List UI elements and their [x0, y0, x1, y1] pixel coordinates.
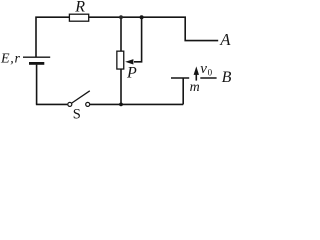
svg-text:R: R [74, 0, 85, 16]
potentiometer P body [117, 51, 124, 69]
svg-text:A: A [219, 30, 231, 49]
switch S blade [71, 91, 90, 104]
svg-text:P: P [126, 65, 137, 82]
wire: lower-right vertical up to B lead [182, 78, 184, 104]
wire: bottom wire from switch to lower-right vertical [90, 103, 183, 105]
wire: wiper branch vertical + horizontal [134, 17, 142, 62]
velocity arrow v0 (up) [195, 74, 197, 81]
wire: lead under v0 toward B [200, 77, 216, 79]
battery E,r short plate [29, 62, 44, 65]
wire: lead stub left of junction [171, 77, 189, 79]
wire: left vertical + top wire + right vertical + lead to A [36, 17, 218, 56]
node: junction dot bottom of pot branch [119, 103, 123, 107]
wire: potentiometer vertical branch [120, 17, 122, 104]
node: junction dot top of pot branch [119, 15, 123, 19]
svg-text:B: B [222, 69, 232, 86]
svg-text:E,r: E,r [0, 51, 21, 66]
wire: bottom wire from battery to switch [36, 103, 68, 105]
battery E,r long plate [23, 56, 50, 58]
svg-text:v: v [200, 61, 207, 77]
switch S left contact circle [68, 102, 72, 106]
resistor R box [69, 14, 88, 21]
node: junction dot top of wiper branch [140, 15, 144, 19]
switch S right contact circle [86, 102, 90, 106]
svg-text:m: m [190, 80, 200, 95]
wiper arrowhead pointing left at P [125, 59, 133, 64]
wire: left vertical below battery [36, 65, 38, 105]
svg-text:S: S [73, 106, 81, 121]
svg-text:0: 0 [208, 68, 213, 78]
